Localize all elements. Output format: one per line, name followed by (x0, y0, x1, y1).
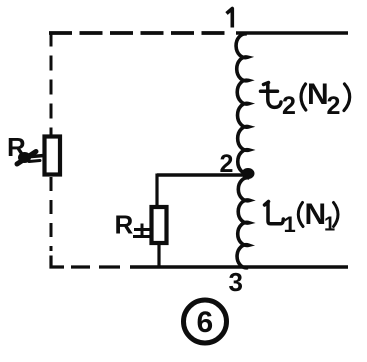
node 1 label (227, 9, 233, 28)
svg-text:1: 1 (284, 212, 296, 237)
wire bottom dashed segment (71, 265, 120, 268)
wire left vertical dashed upper (50, 32, 53, 138)
wire R2 bottom stub (157, 243, 160, 268)
svg-text:N: N (307, 78, 329, 111)
node 2 junction dot (242, 168, 255, 179)
svg-text:N: N (305, 198, 327, 231)
wire top dashed segment (49, 31, 232, 35)
wire bottom solid segment (130, 265, 348, 269)
wire top solid segment (236, 31, 348, 35)
wire node2 horizontal (157, 173, 243, 176)
svg-text:2: 2 (327, 92, 341, 120)
wire node2 vertical down to R2 (155, 174, 158, 209)
wire bottom-left corner (51, 256, 64, 268)
resistor R2 (152, 207, 167, 243)
svg-text:6: 6 (197, 306, 214, 339)
resistor R1 (left, in dashed branch) (45, 137, 61, 175)
svg-text:2: 2 (282, 92, 296, 120)
wire left vertical dashed lower (50, 177, 53, 251)
label R1 "R" with scribbled subscript (7, 132, 44, 164)
inductor L2 winding (node 1 to node 2) (236, 34, 249, 174)
label R2 "R" with double-bar subscript (115, 210, 153, 240)
svg-text:R: R (115, 210, 134, 240)
figure number circle 6 (184, 300, 227, 343)
svg-text:3: 3 (229, 267, 243, 297)
inductor L1 winding (node 2 to node 3) (237, 178, 250, 268)
label L1 (N1) (265, 198, 339, 237)
label L2 (N2) (261, 78, 350, 120)
